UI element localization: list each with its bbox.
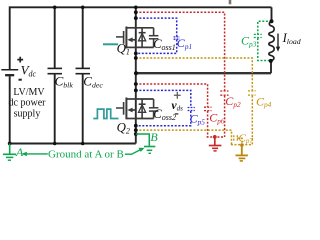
wire top rail — [10, 6, 272, 8]
svg-text:B: B — [150, 130, 158, 144]
diode D1 (body diode of Q1) — [139, 28, 146, 48]
capacitor Cp5 (blue dashed, across Q2) with vds — [136, 90, 191, 125]
capacitor Cp6 (red dashed, switch node to ground) — [136, 84, 225, 137]
diode D2 (body diode of Q2) — [139, 99, 146, 119]
current arrow Iload — [277, 34, 279, 49]
wire Q2 cell top bar — [136, 98, 154, 100]
ground (green, node A) — [3, 144, 16, 161]
wire Q1 cell top bar — [136, 27, 154, 29]
transistor Q1 — [116, 27, 136, 49]
ground (green, node B) — [144, 147, 155, 154]
ground (red, at heatsink) — [209, 135, 222, 151]
ground annotation arrow left — [25, 153, 48, 155]
wire load right vertical lower — [270, 61, 272, 73]
transistor Q2 — [116, 98, 136, 120]
capacitor Coss1 — [149, 28, 159, 48]
label + (battery) — [17, 57, 23, 63]
svg-text:supply: supply — [14, 109, 41, 120]
wire Q2 cell bottom bar — [136, 118, 154, 120]
capacitor Cp3 (green dashed, across load) — [258, 21, 272, 60]
label - (battery) — [19, 79, 22, 81]
capacitor Cp4 (orange dashed, drain trace to ground) — [136, 58, 253, 145]
gate level line Q1 (teal) — [103, 43, 118, 45]
capacitor Cdec — [82, 7, 84, 68]
svg-text:Ground at A or B: Ground at A or B — [48, 149, 124, 161]
capacitor Cp7 (orange dashed, source trace to ground) — [136, 130, 242, 145]
wire node B stub (green) — [136, 134, 150, 146]
wire switching node to load — [136, 72, 271, 74]
wire half-bridge bus lower (Q2) — [135, 73, 137, 143]
svg-text:A: A — [15, 145, 24, 159]
inductor Lload — [271, 7, 273, 21]
wire half-bridge bus upper (Q1 drain) — [135, 6, 137, 73]
gray tick top right — [229, 0, 232, 4]
wire Q1 cell bottom bar — [136, 46, 154, 48]
svg-text:dc power: dc power — [9, 98, 47, 109]
capacitor Cblk — [54, 7, 56, 68]
ground annotation arrow right (to B) — [125, 149, 141, 154]
wire below battery — [9, 76, 11, 143]
battery Vdc — [1, 70, 18, 76]
svg-text:LV/MV: LV/MV — [13, 87, 45, 98]
capacitor Cp1 (blue dashed, across Q1) — [136, 18, 177, 53]
capacitor Cp2 (red dashed, top rail to ground) — [136, 12, 225, 137]
wire bottom rail — [10, 143, 136, 145]
capacitor Coss2 — [149, 99, 159, 119]
gate PWM waveform (teal) — [93, 109, 118, 118]
wire left vertical (Vdc branch) — [9, 6, 11, 69]
ground (orange, dc- trace) — [236, 143, 248, 161]
label - (vds) — [175, 113, 179, 115]
label + (vds) — [174, 92, 181, 99]
